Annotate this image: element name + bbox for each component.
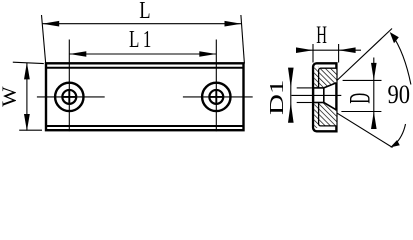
dimension W line: [26, 63, 28, 131]
dimension D extension top: [343, 79, 382, 81]
hole step vertical: [323, 88, 325, 103]
dimension H line: [297, 49, 362, 51]
side view inner contour bottom: [319, 103, 337, 126]
countersink angle leg top: [337, 29, 393, 81]
svg-text:H: H: [316, 22, 327, 49]
dimension H extension right: [338, 44, 340, 63]
hole 2 horizontal center line: [183, 96, 253, 98]
side view center line: [292, 94, 342, 96]
dimension D1 extension top: [297, 87, 312, 89]
dimension H arrow right: [339, 47, 356, 53]
countersink bottom diagonal: [324, 103, 337, 110]
hole 2 vertical center line / L1 extension: [215, 40, 217, 132]
dimension L1 line: [69, 53, 216, 55]
hole 2 center cross: [210, 91, 222, 103]
dimension L arrow right: [225, 21, 242, 27]
dimension W arrow top: [24, 62, 30, 79]
side view core hatched bottom block: [319, 103, 337, 126]
countersink angle leg bottom: [337, 113, 393, 148]
hole 1 vertical center line / L1 extension: [68, 40, 70, 132]
svg-text:90: 90: [388, 80, 411, 109]
dimension L1 arrow left: [69, 51, 86, 57]
hole bore bottom edge: [313, 102, 324, 104]
hole 1 center cross: [63, 91, 75, 103]
angle arc bottom with arrow: [393, 124, 406, 146]
dimension W extension line top: [13, 62, 44, 63]
dimension D1 extension bottom: [297, 102, 312, 104]
hole 2 inner circle: [209, 90, 223, 104]
side view jacket hatched band: [314, 67, 318, 128]
hole 2 outer circle: [202, 83, 230, 111]
dimension D extension bottom: [341, 111, 381, 113]
dimension D1 arrow top (pointing down): [288, 68, 294, 88]
dimension L extension line right: [241, 15, 245, 64]
hole 1 outer circle: [55, 83, 83, 111]
plate chamfer line bottom: [46, 125, 244, 127]
hole 1 horizontal center line: [37, 96, 105, 98]
dimension H arrow left: [296, 47, 313, 53]
side view inner contour top: [319, 68, 337, 88]
svg-text:D: D: [344, 93, 377, 104]
plate front view outline: [46, 63, 244, 130]
svg-text:L: L: [139, 0, 150, 24]
hole bore top edge: [313, 87, 324, 89]
countersink top diagonal: [324, 83, 337, 88]
dimension D1 arrow bottom (pointing up): [288, 103, 294, 123]
side view outer outline: [313, 63, 336, 131]
dimension D line: [373, 58, 375, 127]
dimension D arrow top (pointing down to 81.9): [371, 63, 377, 81]
dimension L line: [42, 23, 242, 25]
dimension W extension line bottom: [19, 129, 42, 131]
angle arc top with arrow: [392, 34, 411, 84]
dimension H extension left: [312, 44, 314, 63]
plate chamfer line top: [46, 67, 244, 69]
hole 1 inner circle: [62, 90, 76, 104]
dimension L1 arrow right: [199, 51, 216, 57]
side view core hatched top block: [319, 68, 337, 88]
svg-text:W: W: [0, 86, 20, 107]
dimension D1 line: [290, 70, 292, 123]
dimension W arrow bottom: [24, 114, 30, 131]
dimension L arrow left: [42, 21, 59, 27]
dimension D arrow bottom (pointing up to 109.4): [371, 112, 377, 130]
dimension L extension line left: [42, 15, 46, 64]
svg-text:L 1: L 1: [129, 25, 151, 53]
svg-text:D1: D1: [266, 80, 288, 115]
